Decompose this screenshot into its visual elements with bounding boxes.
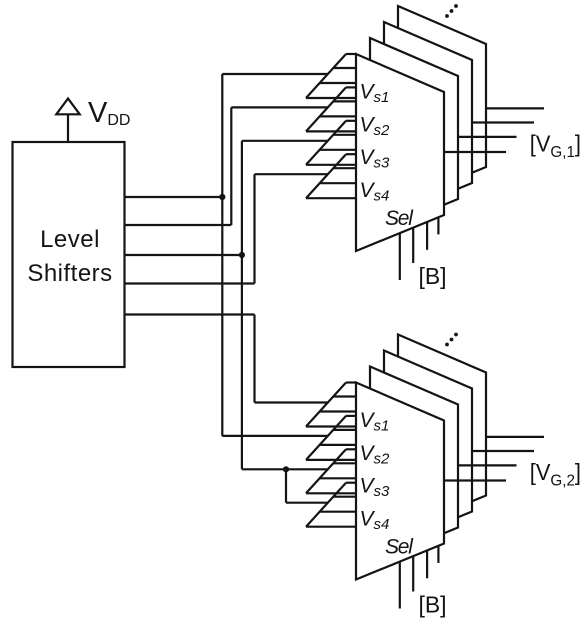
node junction J2 — [239, 252, 245, 258]
wire v4 vertical to top Vs4 — [253, 174, 255, 283]
input plane arrow Vs2 of mux M1 — [306, 87, 356, 131]
output wire 3 of mux M1 — [458, 136, 517, 138]
node junction J3 — [283, 466, 289, 472]
wire v1 vertical bus for Vs1 — [221, 74, 223, 436]
output wire 4 of mux M2 — [444, 479, 506, 481]
mux M2 back panel 2 — [384, 351, 472, 548]
input plane arrow Vs1 of mux M1 — [306, 54, 356, 98]
svg-text:Level: Level — [40, 226, 100, 253]
output wire 2 of mux M2 — [472, 450, 534, 452]
label output bus [VG,1] — [530, 131, 581, 161]
wire feed bottom Vs1 — [255, 401, 328, 403]
mux M1 back panel 2 — [384, 22, 472, 219]
wire feed bottom Vs3 — [242, 468, 328, 470]
wire feed bottom Vs4 — [286, 502, 328, 504]
mux M1 back panel 3 — [398, 6, 486, 203]
svg-text:[B]: [B] — [418, 263, 446, 289]
wire w2 from level shifter output 2 — [125, 224, 232, 226]
wire drop to bottom Vs4 — [285, 469, 287, 502]
wire feed top Vs2 — [231, 106, 328, 108]
select line 3 of mux M2 — [426, 550, 428, 578]
select line 4 of mux M1 — [437, 217, 439, 234]
wire feed top Vs1 — [222, 73, 328, 75]
output wire 1 of mux M1 — [486, 107, 544, 109]
input plane arrow Vs4 of mux M2 — [306, 483, 356, 527]
svg-text:Shifters: Shifters — [27, 260, 112, 287]
input plane arrow Vs2 of mux M2 — [306, 416, 356, 460]
output wire 3 of mux M2 — [458, 464, 517, 466]
wire w4 from level shifter output 4 — [125, 282, 255, 284]
select line 4 of mux M2 — [437, 546, 439, 563]
wire feed top Vs4 — [255, 173, 328, 175]
input plane arrow Vs3 of mux M2 — [306, 449, 356, 493]
node junction J1 — [219, 194, 225, 200]
label output bus [VG,2] — [530, 459, 581, 489]
select line 3 of mux M1 — [426, 222, 428, 250]
input plane arrow Vs1 of mux M2 — [306, 383, 356, 427]
svg-text:Sel: Sel — [385, 536, 414, 559]
wire feed top Vs3 — [242, 140, 328, 142]
wire v2 vertical to top Vs2 — [230, 107, 232, 225]
continuation dots above mux M1 stack — [445, 4, 458, 18]
svg-text:[B]: [B] — [418, 592, 446, 618]
output wire 2 of mux M1 — [472, 121, 534, 123]
mux M2 back panel 3 — [398, 335, 486, 532]
output wire 4 of mux M1 — [444, 151, 506, 153]
mux M2 back panel 1 — [370, 367, 458, 564]
wire feed bottom Vs2 — [222, 435, 328, 437]
select line 1 of mux M1 — [399, 233, 401, 280]
wire v3 vertical bus for Vs3 — [241, 141, 243, 470]
mux M1 back panel 1 — [370, 38, 458, 235]
select line 2 of mux M2 — [412, 556, 414, 591]
wire w5 vertical leg down — [253, 315, 255, 403]
wire w1 from level shifter output 1 — [125, 196, 223, 198]
continuation dots above mux M2 stack — [445, 333, 458, 347]
mux M1 front panel — [356, 54, 444, 251]
level shifter block U1 — [13, 142, 125, 367]
input plane arrow Vs4 of mux M1 — [306, 154, 356, 198]
power symbol VDD — [56, 99, 79, 143]
mux M2 front panel — [356, 383, 444, 580]
output wire 1 of mux M2 — [486, 436, 544, 438]
input plane arrow Vs3 of mux M1 — [306, 121, 356, 165]
select line 1 of mux M2 — [399, 562, 401, 609]
wire w3 from level shifter output 3 — [125, 254, 242, 256]
wire w5 from level shifter output 5 — [125, 313, 255, 315]
select line 2 of mux M1 — [412, 228, 414, 263]
svg-text:Sel: Sel — [385, 207, 414, 230]
